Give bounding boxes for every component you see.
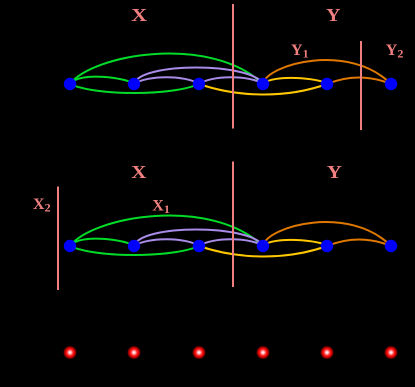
glow dot 4 — [256, 346, 270, 360]
node 5 top — [321, 78, 333, 90]
green arc N1-N3 (lower) — [70, 84, 199, 93]
node 4 middle — [257, 240, 269, 252]
node 1 top — [64, 78, 76, 90]
pink boundary line middle x=58 — [57, 187, 59, 291]
purple arc N3-N4 — [199, 77, 263, 84]
svg-text:Y: Y — [326, 6, 341, 26]
orange arc N5-N6 middle — [327, 240, 391, 247]
orange arc N4-N6 (big) middle — [263, 222, 391, 246]
pink boundary line middle x=233 — [232, 162, 234, 288]
purple arc N2-N4 middle — [134, 230, 263, 247]
green arc N1-N4 (big) — [70, 54, 263, 84]
yellow arc N3-N5 (lower) middle — [199, 246, 327, 257]
pink boundary line top x=233 — [232, 4, 234, 129]
orange arc N4-N6 (big) — [263, 60, 391, 84]
node 4 top — [257, 78, 269, 90]
glow dot 3 — [192, 346, 206, 360]
svg-text:Y: Y — [327, 163, 342, 182]
purple arc N3-N4 middle — [199, 239, 263, 246]
purple arc N2-N4 — [134, 68, 263, 85]
node 3 top — [193, 78, 205, 90]
glow dot 5 — [320, 346, 334, 360]
yellow arc N4-N5 (upper) middle — [263, 240, 327, 246]
orange arc N5-N6 — [327, 78, 391, 85]
pink boundary line top x=361 — [360, 41, 362, 130]
node 1 middle — [64, 240, 76, 252]
svg-text:X: X — [131, 6, 147, 26]
node 6 top — [385, 78, 397, 90]
svg-text:X: X — [131, 163, 146, 182]
purple arc N2-N3 — [134, 77, 199, 84]
glow dot 1 — [63, 346, 77, 360]
node 6 middle — [385, 240, 397, 252]
green arc N1-N2 (upper shallow) — [70, 77, 134, 84]
yellow arc N4-N5 (upper) — [263, 78, 327, 84]
node 3 middle — [193, 240, 205, 252]
node 2 top — [128, 78, 140, 90]
glow dot 6 — [384, 346, 398, 360]
green arc N1-N3 (lower) middle — [70, 246, 199, 255]
glow dot 2 — [127, 346, 141, 360]
yellow arc N3-N5 (lower) — [199, 84, 327, 95]
node 2 middle — [128, 240, 140, 252]
purple arc N2-N3 middle — [134, 239, 199, 246]
node 5 middle — [321, 240, 333, 252]
green arc N1-N2 (upper shallow) middle — [70, 239, 134, 246]
green arc N1-N4 (big) middle — [70, 216, 263, 246]
